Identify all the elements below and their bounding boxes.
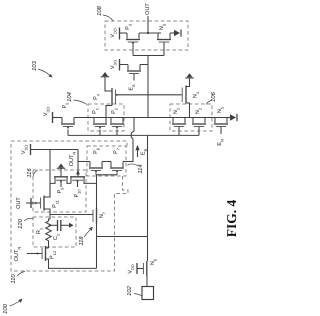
svg-text:100: 100 [2, 303, 9, 313]
wire VDD to N6 gate [138, 268, 144, 270]
svg-text:VDD: VDD [21, 145, 28, 154]
svg-text:N6: N6 [150, 259, 157, 265]
svg-text:103: 103 [31, 60, 38, 70]
svg-text:P1: P1 [92, 108, 99, 114]
svg-text:OUTN: OUTN [69, 152, 76, 167]
svg-text:OUT: OUT [16, 197, 22, 209]
svg-text:110: 110 [10, 274, 17, 284]
gate bias rail [68, 134, 199, 136]
leader 110 [17, 272, 25, 277]
svg-text:EA: EA [129, 84, 136, 91]
transistor E_A [120, 64, 148, 66]
svg-text:120: 120 [17, 218, 24, 228]
svg-text:N1: N1 [173, 108, 180, 114]
wire N7 drain line [96, 175, 98, 208]
svg-text:VDD: VDD [43, 107, 50, 116]
wire gate rail 108 [133, 56, 164, 118]
wire OUT lead [147, 16, 149, 33]
svg-text:OUTN: OUTN [14, 247, 21, 262]
svg-text:VDD: VDD [110, 28, 117, 37]
svg-text:C1: C1 [53, 234, 60, 240]
leader arrow 118 [84, 230, 90, 237]
supply arrow N4 [185, 73, 193, 78]
junction dot OUT [147, 32, 149, 34]
main drain rail [94, 117, 230, 119]
leader 104 [74, 100, 88, 105]
svg-text:R1: R1 [36, 228, 43, 234]
wire VDD to P5 [53, 117, 62, 119]
svg-text:P4: P4 [93, 93, 100, 100]
svg-text:P9: P9 [57, 188, 64, 194]
svg-text:P8: P8 [93, 148, 100, 154]
svg-text:N4: N4 [193, 91, 200, 98]
leader 106 [206, 101, 212, 105]
svg-text:102: 102 [126, 285, 133, 295]
dashed box 104 [88, 104, 124, 131]
svg-text:P10: P10 [74, 189, 81, 198]
svg-text:P3: P3 [125, 24, 132, 30]
svg-text:FIG. 4: FIG. 4 [224, 200, 239, 238]
dashed box 116 [33, 170, 86, 212]
wire VDD rail left [31, 150, 78, 198]
leader 116 [33, 171, 38, 178]
box 102 [142, 287, 154, 300]
wire VDD to P3 [120, 32, 127, 34]
wire drain rail P3-N3 [139, 32, 161, 34]
wire rail to long vertical [97, 236, 148, 238]
svg-text:P12: P12 [50, 251, 57, 259]
svg-text:P5: P5 [62, 103, 69, 109]
svg-text:116: 116 [26, 168, 33, 178]
wire P4 source [106, 106, 112, 118]
supply arrow P4 [101, 72, 109, 77]
transistor P5 [61, 118, 75, 130]
svg-text:114: 114 [138, 164, 144, 173]
wire E_B branch with jog [123, 118, 134, 162]
leader 102 [134, 294, 142, 296]
dashed box 108 [105, 21, 188, 50]
svg-text:P7: P7 [113, 148, 120, 154]
dashed box 114 [87, 146, 126, 176]
leader arrow 103 [38, 69, 50, 76]
dashed box 106 [170, 104, 212, 131]
ground N3 [174, 29, 181, 36]
ground N5 [230, 114, 237, 121]
svg-text:VDD: VDD [110, 60, 117, 69]
svg-text:EB: EB [141, 148, 148, 155]
svg-text:P11: P11 [52, 200, 59, 208]
supply arrow P9 [57, 164, 65, 169]
wire gate rail P8 P7 [96, 174, 117, 176]
leader 108 [103, 15, 113, 21]
current arrow E_B [137, 150, 139, 158]
svg-text:118: 118 [78, 236, 85, 246]
wire gate line P4-N4 [116, 94, 182, 96]
leader 114 [128, 164, 139, 166]
transistor N6 [142, 263, 144, 274]
long vertical wire to N6 [147, 135, 149, 261]
big dashed box 110 [11, 141, 128, 271]
wire node OUT_N riser with arrow [77, 150, 79, 177]
svg-text:N5: N5 [217, 107, 224, 113]
svg-text:104: 104 [66, 92, 73, 102]
svg-text:108: 108 [96, 5, 103, 15]
svg-text:EN: EN [217, 139, 224, 146]
svg-text:OUT: OUT [145, 3, 151, 15]
leader arrow 100 [10, 301, 20, 306]
wire N3 source to ground [170, 32, 174, 34]
dashed box 120 [33, 217, 76, 247]
svg-text:P2: P2 [111, 108, 118, 114]
leader 120 [24, 218, 33, 221]
svg-text:N7: N7 [99, 212, 106, 218]
svg-text:N2: N2 [195, 108, 202, 114]
svg-text:N3: N3 [159, 24, 166, 30]
svg-text:VDD: VDD [128, 264, 135, 273]
